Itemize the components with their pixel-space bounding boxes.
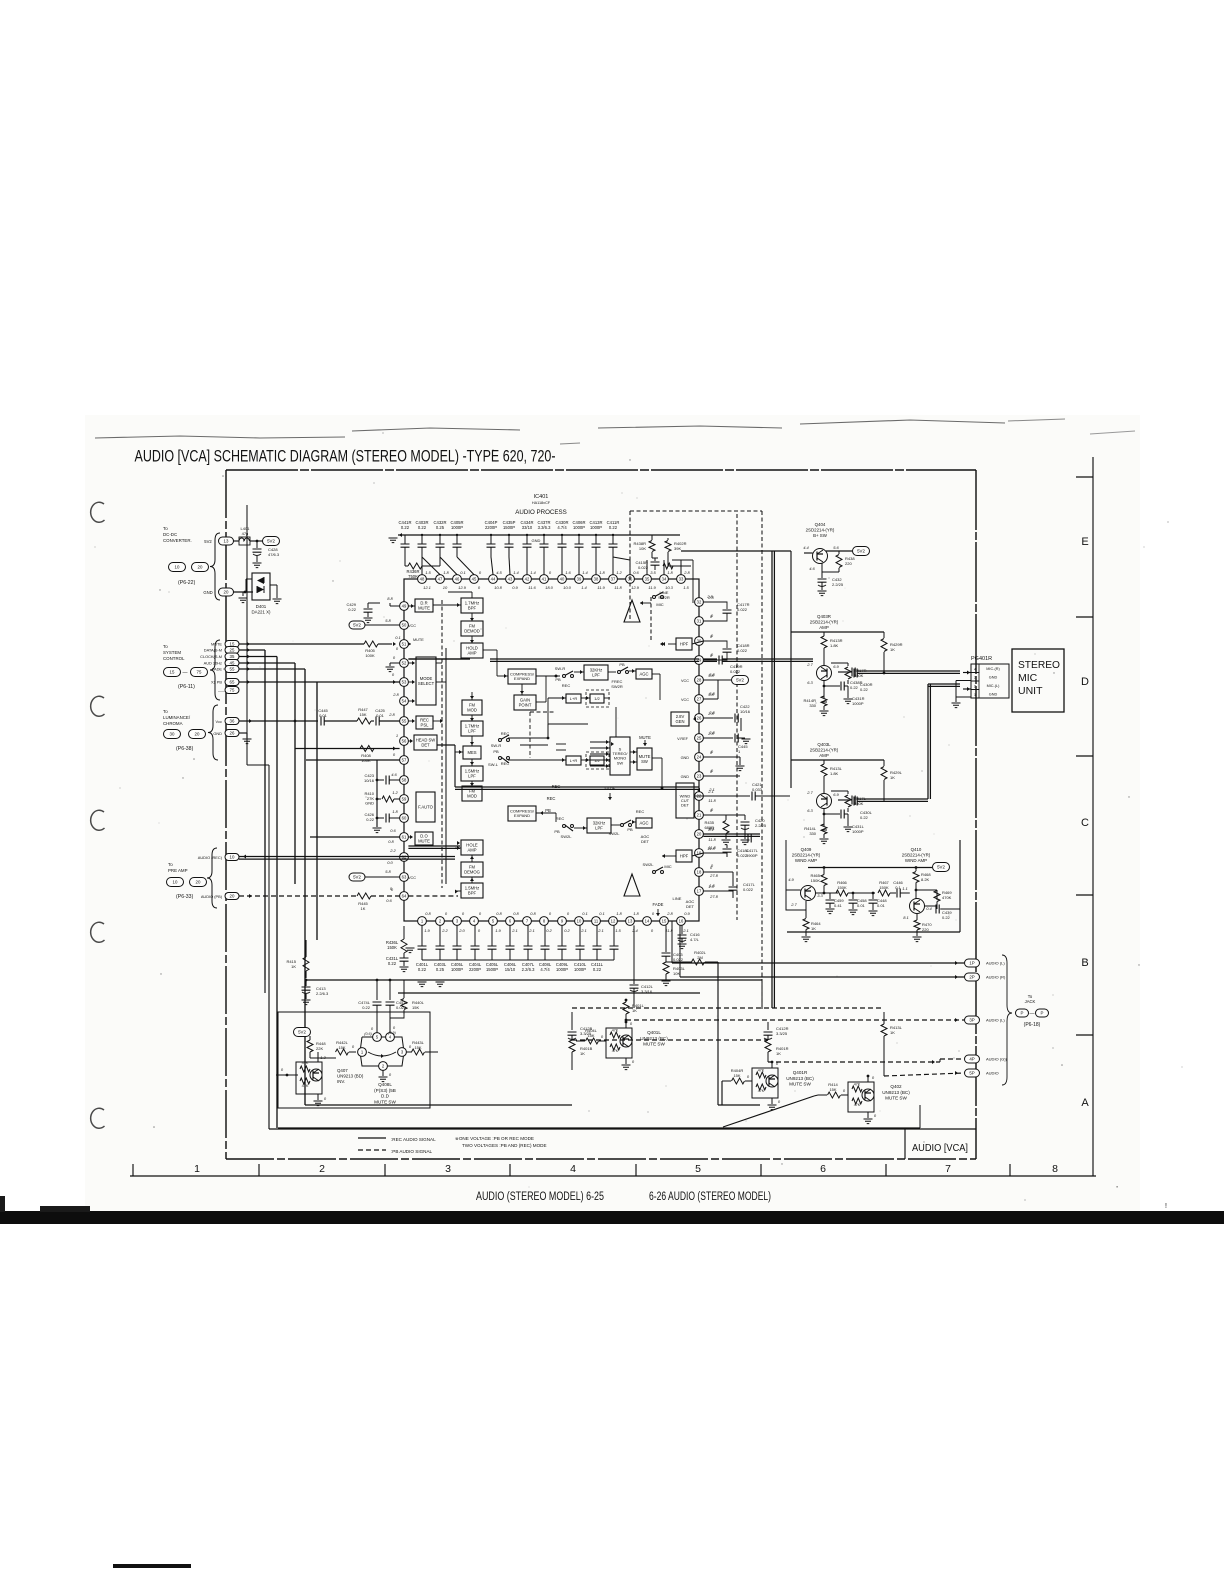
capacitor C405L 1000P [456, 925, 458, 946]
wire Q409 collector node [816, 892, 839, 894]
svg-text:0.25: 0.25 [436, 525, 445, 530]
svg-text:WIND AMP: WIND AMP [795, 858, 817, 863]
wire top-left pin feed [421, 557, 423, 575]
svg-text:1.3: 1.3 [320, 1055, 326, 1060]
Q403R transistor circle [817, 666, 832, 681]
wire x693 vertical [692, 560, 694, 603]
svg-text:BPF: BPF [468, 605, 477, 610]
block AGC upper [636, 669, 652, 679]
svg-text:C: C [1081, 817, 1089, 829]
svg-text:1000P: 1000P [852, 829, 864, 834]
resistor R417R 680K [847, 663, 849, 666]
switch lower right [621, 824, 624, 827]
svg-text:42: 42 [525, 577, 530, 582]
svg-text:1000P: 1000P [451, 967, 463, 972]
svg-text:To: To [163, 644, 168, 649]
resistor R435 680R pin21 [703, 814, 745, 816]
wire to compress/expand [497, 675, 508, 677]
wire collector to 5V2 [826, 550, 852, 552]
svg-text:REC: REC [501, 731, 510, 736]
svg-text:5V2: 5V2 [267, 539, 275, 544]
svg-text:HPF: HPF [680, 641, 689, 646]
svg-text:41: 41 [542, 577, 547, 582]
svg-text:0.41: 0.41 [834, 903, 843, 908]
capacitor C417R 0.022 loop pin32 [703, 602, 727, 609]
svg-text:Q410: Q410 [911, 847, 922, 852]
svg-text:AUDIO [VCA]: AUDIO [VCA] [912, 1143, 968, 1154]
svg-text:MIC: MIC [656, 602, 663, 607]
dashed audio bus upper pair [572, 1007, 884, 1009]
svg-text:FADE: FADE [605, 786, 616, 791]
svg-text:STEREO: STEREO [1018, 659, 1060, 671]
resistor R440L 15K [403, 980, 405, 998]
svg-text:15: 15 [230, 642, 235, 647]
stereo mono to mute sw [630, 751, 637, 753]
svg-text:26: 26 [697, 716, 702, 721]
svg-text:HA118xCF: HA118xCF [532, 501, 551, 505]
svg-text:0.8: 0.8 [496, 911, 502, 916]
ground PG401R [952, 703, 961, 708]
transistor Q407 INV [296, 1062, 322, 1094]
svg-text:MIC-(L): MIC-(L) [987, 684, 1001, 688]
capacitor C429 0.22 at pin 50 [367, 603, 369, 608]
heavy mic-r line pin29 to Q403R [703, 658, 717, 660]
capacitor C404P 2200P [490, 535, 492, 544]
resistor R413L 1K [883, 1012, 885, 1024]
svg-text:4.7/L: 4.7/L [690, 937, 700, 942]
audio pb dashed wire [239, 895, 357, 897]
svg-text:MUTE: MUTE [418, 605, 430, 610]
block AGC lower [636, 818, 652, 828]
svg-text:15/10: 15/10 [505, 967, 516, 972]
svg-text:75: 75 [230, 688, 235, 693]
svg-text:5.6: 5.6 [833, 545, 839, 550]
block 1.7MHz LPF [461, 721, 483, 736]
svg-text:A: A [1081, 1097, 1089, 1109]
svg-text:51: 51 [402, 642, 407, 647]
terminal oval 75 [225, 687, 239, 694]
svg-text:AUDIO (L): AUDIO (L) [986, 1018, 1005, 1023]
svg-text:15K: 15K [414, 1045, 421, 1050]
wire 2.8V gen pin [689, 718, 694, 720]
svg-text:REC: REC [636, 809, 645, 814]
svg-text:4.6: 4.6 [391, 772, 397, 777]
svg-text:0.1: 0.1 [460, 570, 466, 575]
resistor R401B 1K [569, 1040, 575, 1052]
svg-text:11: 11 [594, 919, 599, 924]
svg-text:0.25: 0.25 [436, 967, 445, 972]
transistor Q404 2SD2214 B+ SW [813, 549, 828, 564]
svg-text:6.9: 6.9 [833, 664, 839, 669]
svg-text:To: To [168, 862, 173, 867]
block HOLE AMP [461, 840, 483, 855]
svg-text:15K: 15K [338, 1045, 345, 1050]
block MES [463, 746, 481, 759]
svg-text:AMP: AMP [819, 753, 829, 758]
svg-text:MES: MES [467, 750, 476, 755]
svg-text:470K: 470K [942, 895, 952, 900]
resistor R415 1K [305, 940, 307, 957]
svg-text:(0.6): (0.6) [364, 1032, 371, 1036]
svg-text:1.8: 1.8 [443, 570, 449, 575]
svg-text:0.4: 0.4 [926, 906, 932, 911]
svg-text:AUDIO (R): AUDIO (R) [986, 975, 1006, 980]
svg-text:2SB2214-(YR): 2SB2214-(YR) [810, 748, 839, 753]
block MUTE SW [637, 748, 652, 770]
resistor R401L 1K [625, 1000, 627, 1002]
wire switch to 32k lpf [574, 671, 584, 673]
svg-text:31: 31 [697, 619, 702, 624]
svg-text:15: 15 [662, 919, 667, 924]
capacitor C409L 1000P [561, 925, 563, 946]
resistor R438 220 [838, 551, 840, 554]
svg-text:14: 14 [645, 919, 650, 924]
block WIND CUT DET [676, 783, 694, 818]
STEREO MIC UNIT box [1012, 649, 1064, 712]
svg-text:39: 39 [577, 577, 582, 582]
svg-text::REC AUDIO SIGNAL: :REC AUDIO SIGNAL [391, 1137, 436, 1142]
svg-text:10.8: 10.8 [494, 585, 503, 590]
svg-text:33: 33 [679, 577, 684, 582]
svg-text:150K: 150K [837, 885, 847, 890]
svg-text:1K: 1K [890, 775, 895, 780]
transistor Q402 MUTE SW [848, 1082, 874, 1112]
IC401 right pins 32-17 [695, 598, 704, 607]
svg-text:26: 26 [230, 731, 235, 736]
hpf wires [660, 642, 663, 646]
svg-text:64: 64 [402, 894, 407, 899]
svg-text:1.4: 1.4 [582, 570, 588, 575]
svg-text:SW2R: SW2R [658, 595, 670, 600]
AGC feedback wire [652, 673, 660, 675]
switch line mic lower [653, 871, 656, 874]
svg-text:2P: 2P [969, 975, 974, 980]
output terminal 1P AUDIO (L) [965, 959, 980, 967]
svg-text:1.5: 1.5 [709, 883, 715, 888]
svg-text:28: 28 [697, 678, 702, 683]
svg-text:PB: PB [554, 829, 560, 834]
svg-text:AUD 30Hz: AUD 30Hz [204, 661, 222, 666]
bottom long bus wire [278, 1127, 920, 1129]
svg-text:Q404: Q404 [815, 522, 826, 527]
system control bus wires [239, 643, 364, 645]
capacitor C412B 3.3/25 [571, 1012, 573, 1030]
svg-text:0.22: 0.22 [609, 525, 618, 530]
svg-text:2.7: 2.7 [790, 902, 797, 907]
svg-text:GEN: GEN [675, 719, 684, 724]
capacitor C410L 1000P [579, 925, 581, 946]
svg-text:1.8: 1.8 [616, 911, 622, 916]
svg-text:AMP: AMP [467, 650, 476, 655]
svg-text:AMP: AMP [467, 847, 476, 852]
svg-text:5.8: 5.8 [385, 869, 391, 874]
block HPF lower [676, 850, 692, 862]
svg-text:1K: 1K [890, 647, 895, 652]
svg-text:40: 40 [560, 577, 565, 582]
ground right of D401 [273, 599, 282, 604]
compress gain point link [521, 684, 523, 695]
svg-text:57: 57 [402, 758, 407, 763]
block 1.5MHz BPF [461, 883, 483, 898]
svg-text:Vcc: Vcc [216, 719, 223, 724]
svg-text:1.5: 1.5 [615, 928, 621, 933]
svg-text:D.D: D.D [381, 1094, 390, 1099]
svg-text:GND: GND [203, 590, 212, 595]
svg-text:0.22: 0.22 [362, 1005, 371, 1010]
svg-text:6.9: 6.9 [833, 792, 839, 797]
block 2.8V GEN [671, 712, 689, 726]
capacitor C441R 0.22 [404, 535, 406, 544]
wire hold amp to compress [483, 649, 497, 651]
wire compress lower [536, 812, 556, 814]
capacitor C406L 15/10 [509, 925, 511, 946]
resistor R442L 15K [310, 1057, 336, 1059]
output terminal 3P AUDIO (L) [965, 1016, 980, 1024]
connector ovals 15-75 P6-11 [164, 668, 181, 677]
capacitor C412L 3.3/16 [633, 925, 635, 984]
brace To JACK [1002, 955, 1012, 1085]
terminal oval 13 [219, 537, 234, 545]
bottom caps ground returns [422, 959, 614, 961]
emitter wire [821, 563, 823, 578]
svg-text:27.8: 27.8 [709, 873, 719, 878]
svg-text:V.REF: V.REF [677, 737, 689, 741]
capacitor C411L 0.22 [596, 925, 598, 946]
resistor R408 100K [360, 746, 374, 752]
inner border left vertical [246, 505, 248, 765]
svg-text:CLOCK(S-M: CLOCK(S-M [200, 654, 222, 659]
resistor R467 150K [878, 890, 890, 896]
wire fm demod chain low [471, 855, 473, 862]
svg-text:(P6-33): (P6-33) [176, 894, 194, 900]
svg-text:17: 17 [697, 889, 702, 894]
svg-text:1: 1 [396, 733, 398, 738]
svg-text:DET: DET [686, 904, 695, 909]
svg-text:11.6: 11.6 [528, 585, 536, 590]
svg-text:10: 10 [175, 565, 180, 570]
resistor R402L 2M [666, 961, 692, 963]
svg-text:47: 47 [438, 577, 443, 582]
resistor R447 15K [357, 718, 371, 724]
svg-text:33/10: 33/10 [522, 525, 533, 530]
svg-text:7: 7 [945, 1163, 951, 1175]
svg-text:56: 56 [402, 739, 407, 744]
switch SW-L lower [563, 825, 566, 828]
svg-text:PG401R: PG401R [971, 656, 992, 662]
capacitor C413 2.2/6.3 [305, 980, 307, 986]
svg-text:60: 60 [402, 816, 407, 821]
pin 55 arrow to REC PSL [412, 719, 415, 723]
svg-text:2.0: 2.0 [458, 928, 465, 933]
svg-text:GND: GND [989, 693, 998, 697]
svg-text:10: 10 [230, 855, 235, 860]
capacitor C421 0.033 pin22 [703, 795, 750, 797]
svg-text:TWO VOLTAGES :PB AND (REC) MOD: TWO VOLTAGES :PB AND (REC) MODE [462, 1143, 547, 1148]
transistor Q401L MUTE SW [606, 1028, 632, 1058]
svg-text:330: 330 [809, 703, 816, 708]
svg-text:AUDIO (REC): AUDIO (REC) [198, 855, 223, 860]
scan speckle [158, 822, 161, 825]
capacitor C437R 3.3/6.3 [543, 535, 545, 544]
svg-text:D401: D401 [256, 604, 267, 609]
svg-text::PB AUDIO SIGNAL: :PB AUDIO SIGNAL [391, 1149, 433, 1154]
audio rec double wire [239, 856, 455, 858]
svg-text:—: — [183, 670, 188, 676]
capacitor C403L 0.25 [439, 925, 441, 946]
capacitor C430R 0.22 [854, 669, 857, 678]
svg-text:18: 18 [697, 870, 702, 875]
svg-text:2.8: 2.8 [392, 692, 399, 697]
resistor R405 100K [364, 641, 378, 647]
ground stub [239, 732, 247, 734]
svg-text:1.8: 1.8 [667, 570, 673, 575]
svg-text:47μ: 47μ [242, 531, 249, 536]
svg-text:1P: 1P [969, 961, 974, 966]
svg-text:UN9213 (BC): UN9213 (BC) [786, 1076, 814, 1081]
svg-text:45: 45 [472, 577, 477, 582]
capacitor C430L 0.22 [854, 797, 857, 806]
IC401 bottom pins 1-16 [418, 917, 427, 926]
svg-text:1.2: 1.2 [616, 570, 622, 575]
svg-text:52: 52 [402, 661, 407, 666]
svg-text:34: 34 [662, 577, 667, 582]
svg-text:65: 65 [230, 680, 235, 685]
svg-text:20: 20 [230, 894, 235, 899]
svg-text:4: 4 [570, 1163, 576, 1175]
svg-text:55: 55 [230, 667, 235, 672]
svg-text:0.022: 0.022 [638, 565, 649, 570]
heavy wire Q403R to PG401R [832, 672, 838, 674]
svg-text:8.2K: 8.2K [921, 877, 930, 882]
svg-text:0.9: 0.9 [512, 585, 518, 590]
svg-text:8: 8 [1052, 1163, 1058, 1175]
svg-text:20: 20 [224, 590, 229, 595]
inner border bottom [269, 1128, 976, 1130]
svg-text:1.8: 1.8 [633, 911, 639, 916]
svg-text:47/6.3: 47/6.3 [268, 552, 280, 557]
top capacitor bus [398, 534, 680, 536]
svg-text:2.8: 2.8 [708, 730, 715, 735]
capacitor C458 0.01 [852, 892, 855, 895]
svg-text:50: 50 [402, 623, 407, 628]
svg-text:1000P: 1000P [852, 701, 864, 706]
bottom page mark [113, 1564, 191, 1568]
svg-text:GND: GND [681, 775, 690, 779]
schematic border frame [226, 469, 976, 471]
svg-text:Q401L: Q401L [647, 1030, 661, 1035]
wire Q401L feed [560, 1040, 576, 1042]
svg-text:0.22: 0.22 [942, 915, 951, 920]
capacitor C417L 0.022 pin17 [703, 890, 733, 892]
svg-text:0.01: 0.01 [376, 713, 385, 718]
svg-text:3900P: 3900P [746, 853, 758, 858]
svg-text:2SB2214-(YR): 2SB2214-(YR) [810, 620, 839, 625]
oval 5V2 at pin 50 [349, 621, 365, 629]
svg-text:MUTE: MUTE [413, 638, 424, 642]
connector ovals 30 20 P6-38 [164, 730, 181, 739]
oval 5V2 supply [263, 537, 280, 546]
svg-text:15K: 15K [829, 1087, 836, 1092]
left frame vertical bus x265 lower [264, 980, 266, 993]
ground below C432 [818, 591, 827, 596]
svg-text:330: 330 [809, 831, 816, 836]
block COMPRESS/EXPAND upper [508, 669, 536, 684]
svg-text:(P(S3) (5B: (P(S3) (5B [374, 1088, 396, 1093]
wire pin49 stub [390, 605, 400, 607]
heavy wire Q403L to mic return [857, 798, 928, 800]
svg-text:UNIT: UNIT [1018, 685, 1043, 697]
block STEREO/MONO [610, 737, 630, 775]
svg-text:0.22: 0.22 [388, 961, 397, 966]
svg-text:Q401R: Q401R [793, 1070, 808, 1075]
svg-text:2.1: 2.1 [708, 787, 715, 792]
svg-text:!: ! [1165, 1203, 1167, 1210]
switch SW-L mid [499, 757, 502, 760]
op-amp triangle lower [624, 874, 640, 896]
L+R chain upper [548, 697, 566, 699]
svg-text:0.01: 0.01 [857, 903, 866, 908]
svg-text:VCC: VCC [681, 698, 689, 702]
block GAIN POINT [514, 695, 536, 710]
svg-text:4P: 4P [969, 1057, 974, 1062]
svg-text:CONTROL: CONTROL [163, 656, 185, 661]
svg-text:20: 20 [196, 880, 201, 885]
svg-text:JACK: JACK [1025, 999, 1036, 1004]
svg-text:47K: 47K [302, 1084, 309, 1088]
svg-text:12.9: 12.9 [458, 585, 467, 590]
svg-text:0.022: 0.022 [737, 607, 748, 612]
svg-text:DATA(S-M: DATA(S-M [204, 648, 222, 653]
svg-text:1.6: 1.6 [565, 570, 571, 575]
dashed path upper right [630, 510, 762, 512]
resistor R464 1K [805, 901, 807, 918]
svg-text:1K: 1K [776, 1051, 781, 1056]
capacitor C412L 3.3/16 [613, 925, 615, 946]
svg-text:0.8: 0.8 [388, 839, 394, 844]
svg-text:150K: 150K [811, 878, 821, 883]
PG401R pin 1 GND [971, 690, 979, 699]
svg-text:0.01: 0.01 [877, 903, 886, 908]
svg-text:1.8: 1.8 [392, 809, 398, 814]
capacitor C413R 1000P [595, 535, 597, 544]
resistor R436L 150K [401, 939, 407, 953]
svg-text:0.022: 0.022 [730, 669, 741, 674]
resistor R404L 15K [586, 1038, 599, 1044]
pin 56 arrow [410, 739, 413, 743]
svg-text:37: 37 [611, 577, 616, 582]
capacitor C435P 1500P [508, 535, 510, 544]
wire BPF top bus [471, 592, 473, 598]
svg-text:27.8: 27.8 [709, 894, 719, 899]
svg-text:X2 PB: X2 PB [211, 680, 222, 685]
svg-text:11.8: 11.8 [708, 845, 716, 850]
svg-text:SW2L: SW2L [561, 834, 573, 839]
svg-text:2SD2214-(YR): 2SD2214-(YR) [806, 528, 835, 533]
svg-text:3.3/25: 3.3/25 [580, 1031, 592, 1036]
svg-text:REC: REC [562, 683, 571, 688]
svg-text:45: 45 [230, 661, 235, 666]
capacitor C408L 4.7/4 [544, 925, 546, 946]
svg-text:220: 220 [845, 561, 852, 566]
svg-text:32: 32 [697, 600, 702, 605]
svg-text:23: 23 [697, 774, 702, 779]
L+R chain lower [548, 759, 566, 761]
connector ovals 10 20 P6-22 [169, 563, 186, 572]
wire mes input [455, 751, 463, 753]
mid junction dots [547, 737, 550, 740]
svg-text:2200P: 2200P [469, 967, 481, 972]
capacitor C416 4.7 below pin16 [681, 925, 683, 934]
